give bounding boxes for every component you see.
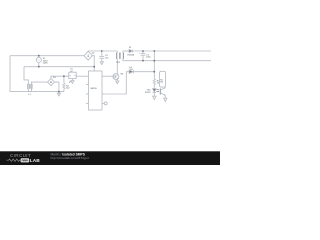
resistor R1: [63, 76, 65, 91]
wire: source: [116, 79, 118, 81]
wire: outer left vertical: [9, 56, 11, 92]
optocoupler LED: [153, 89, 156, 97]
choke L1: [28, 82, 48, 92]
bridge rectifier D2 (main diamond): [84, 51, 92, 60]
transformer TR1: [117, 51, 124, 61]
label R4: [160, 79, 163, 83]
label M1: [121, 74, 125, 76]
svg-text:M1: M1: [121, 74, 125, 76]
label D1: [127, 47, 134, 56]
label V1: [43, 58, 48, 64]
junction dots: [38, 50, 155, 92]
MOSFET M1: [113, 74, 119, 80]
ground (M1 source): [116, 81, 119, 84]
component box R4: [160, 71, 166, 87]
label D2: [92, 52, 96, 54]
svg-text:+: +: [139, 52, 141, 54]
diode D1: [129, 49, 132, 52]
wire: neutral down to choke: [24, 67, 28, 84]
wire: DC+ rail: [87, 50, 89, 52]
capacitor C1: [141, 51, 146, 61]
voltage source V1: [36, 56, 41, 67]
footer bar: [0, 151, 220, 165]
svg-text:LAB: LAB: [30, 158, 40, 164]
resistor R2: [153, 79, 155, 89]
label L1: [28, 94, 31, 96]
wire: V1 neutral rail: [24, 66, 94, 68]
opto arrows: [156, 89, 159, 92]
wire: bridge right jog down to IC: [92, 56, 94, 71]
label TR1: [116, 62, 121, 64]
ground (LED): [153, 96, 156, 99]
wire: box to IC pin1: [76, 75, 86, 77]
svg-text:NE555: NE555: [91, 88, 98, 90]
label R2: [157, 80, 160, 84]
svg-text:D1: D1: [129, 47, 131, 49]
label OK1: [145, 90, 151, 94]
svg-text:5V1: 5V1: [130, 69, 133, 71]
wire: drain: [116, 61, 118, 75]
svg-text:L1: L1: [28, 94, 31, 96]
snubber diode D4: [105, 70, 155, 94]
sense element K1 (small box): [69, 72, 76, 83]
label D4: [130, 67, 133, 71]
svg-text:D3: D3: [53, 77, 57, 79]
ground (C3): [100, 62, 103, 65]
svg-text:D2: D2: [92, 52, 96, 54]
wire: secondary bottom rail: [123, 60, 211, 62]
capacitor C3: [99, 51, 104, 62]
svg-text:10k: 10k: [160, 81, 163, 83]
svg-text:http://circuitlab.com/c5T3yp4: http://circuitlab.com/c5T3yp4: [51, 156, 90, 160]
svg-text:50Hz: 50Hz: [43, 63, 48, 65]
svg-text:1k: 1k: [157, 83, 159, 85]
wiper arrow mark: [69, 81, 71, 83]
wire: bridge2 top to sense node: [51, 76, 69, 78]
svg-text:CIRCUIT: CIRCUIT: [10, 153, 31, 158]
ground (primary return): [57, 92, 60, 96]
label D3: [53, 77, 57, 79]
wire: feedback drop: [153, 51, 155, 79]
wire: gate wire IC to M1: [105, 75, 113, 77]
CircuitLab logo: [7, 153, 41, 164]
wire: bottom rail: [10, 91, 64, 93]
bridge rectifier D3 (input diamond): [48, 79, 55, 86]
wire: bridge2 right to ground drop: [55, 82, 59, 92]
label U1: [91, 88, 98, 90]
IC U1 controller: [86, 71, 107, 110]
label C1: [139, 52, 151, 58]
optocoupler phototransistor: [160, 87, 165, 98]
label K1: [70, 69, 73, 73]
wire: secondary top rail: [123, 50, 129, 52]
svg-text:10n: 10n: [105, 58, 108, 60]
label C3: [105, 55, 108, 59]
svg-text:1N4148: 1N4148: [127, 54, 134, 56]
ground (phototransistor): [164, 98, 167, 101]
svg-text:2k2: 2k2: [66, 88, 70, 90]
svg-text:TR1: TR1: [116, 62, 121, 64]
svg-text:100u: 100u: [146, 57, 150, 59]
label R1: [66, 85, 70, 89]
svg-text:PC817: PC817: [145, 92, 151, 94]
wire: primary top rail: [10, 55, 84, 57]
